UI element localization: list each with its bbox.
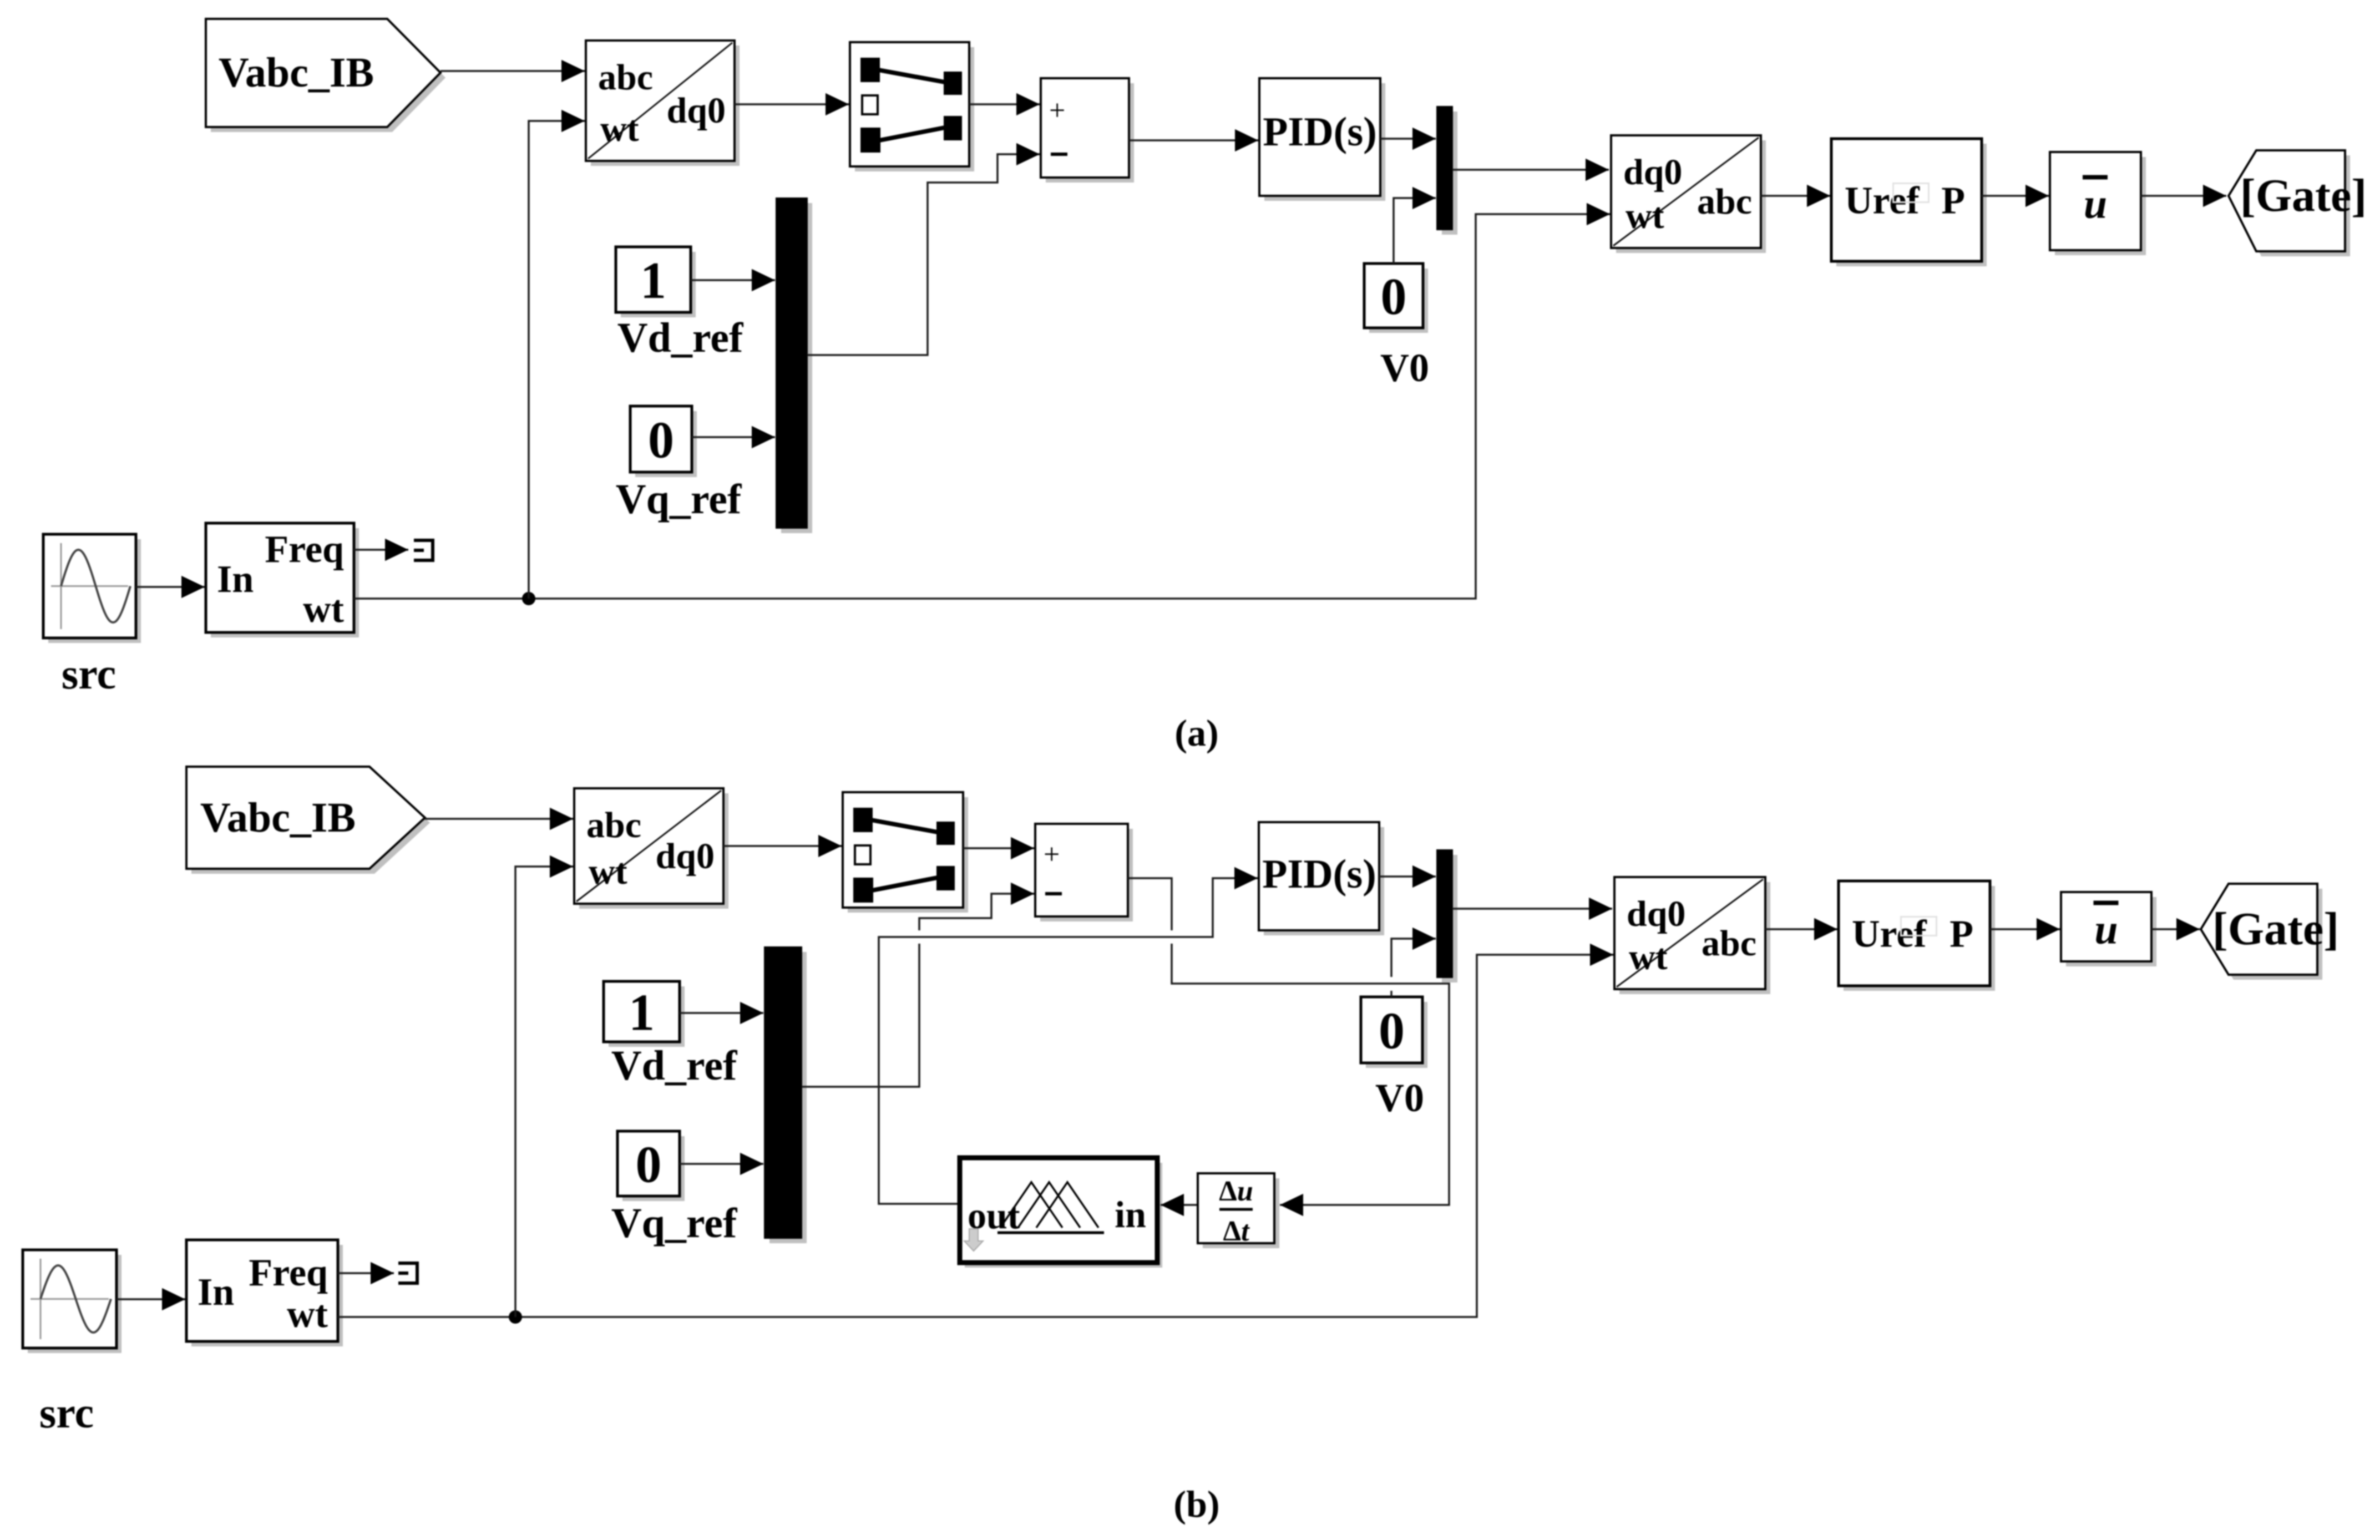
block dq0 to abc transform U2 (a) (1611, 135, 1766, 253)
svg-text:[Gate]: [Gate] (2212, 903, 2340, 955)
terminator (b) (398, 1262, 417, 1285)
svg-text:In: In (217, 558, 254, 601)
svg-text:Vd_ref: Vd_ref (611, 1042, 738, 1089)
PWM generator block Uref P (a) (1831, 139, 1987, 266)
wire PID to mux (b) (1379, 875, 1436, 878)
svg-text:PID(s): PID(s) (1262, 852, 1376, 897)
terminator (a) (414, 539, 433, 562)
mux M1 (b) (769, 952, 807, 1243)
svg-text:0: 0 (1379, 1002, 1405, 1060)
wire selector to sum plus (a) (969, 103, 1040, 105)
svg-text:u: u (2094, 906, 2118, 953)
sine source src (b) (23, 1250, 121, 1353)
wire Vabc_IB to abc-dq0 (a) (440, 70, 585, 72)
wire sum to PID (a) (1129, 139, 1258, 141)
sum block (a) (1041, 78, 1134, 183)
constant Vd_ref =1 (a) (616, 247, 696, 317)
svg-text:wt: wt (303, 588, 344, 631)
block dq0 to abc transform U2 (b) (1614, 877, 1770, 994)
sine source src (a) (43, 534, 141, 643)
wire mux to dq0-abc (a) (1452, 169, 1609, 171)
svg-text:[Gate]: [Gate] (2240, 170, 2367, 221)
svg-text:wt: wt (600, 109, 639, 149)
wire u-bar to Gate tag (a) (2141, 195, 2226, 197)
wire dq0-abc to Uref (b) (1765, 928, 1837, 930)
wire V0 to mux (b) (1390, 991, 1392, 997)
wire mux to dq0-abc (b) (1452, 908, 1612, 910)
junction wt (a) (522, 592, 535, 605)
fuzzy logic controller block (b) (960, 1158, 1162, 1268)
svg-text:+: + (1044, 839, 1060, 870)
svg-text:Vabc_IB: Vabc_IB (200, 794, 356, 841)
wire du-dt to fuzzy (b) (1161, 1204, 1198, 1206)
arrow wt into dq0-abc (a) (1587, 213, 1610, 215)
svg-text:1: 1 (629, 984, 655, 1042)
svg-text:wt: wt (1629, 937, 1668, 977)
wire Vd_ref to mux (b) (680, 1012, 763, 1014)
wire V0 to mux (a) (1394, 198, 1415, 264)
svg-text:Vd_ref: Vd_ref (617, 315, 744, 361)
svg-text:dq0: dq0 (656, 836, 715, 877)
svg-text:dq0: dq0 (1627, 894, 1685, 934)
goto tag Gate (a) (2234, 155, 2350, 256)
block abc to dq0 transform U1 (a) (586, 40, 740, 166)
sum block (b) (1035, 824, 1133, 921)
svg-text:wt: wt (287, 1293, 328, 1336)
svg-text:Freq: Freq (249, 1252, 328, 1294)
svg-text:PID(s): PID(s) (1263, 109, 1377, 155)
svg-text:Δt: Δt (1223, 1215, 1250, 1247)
PWM generator block Uref P (b) (1839, 881, 1995, 991)
wire fuzzy out to PID (b) (879, 878, 1235, 1204)
svg-text:1: 1 (640, 252, 666, 310)
wire wt branch up (a) (529, 121, 561, 599)
wire mux M1 to sum minus (b) (802, 944, 919, 1087)
svg-text:P: P (1949, 913, 1973, 956)
wire sum out to du-dt (b) (1128, 878, 1172, 930)
mux M2 (a) (1442, 112, 1457, 235)
wire wt branch up (b) (515, 867, 550, 1317)
constant Vd_ref =1 (b) (604, 981, 685, 1047)
svg-text:0: 0 (636, 1136, 662, 1194)
wire u-bar to Gate tag (b) (2151, 928, 2200, 930)
svg-text:Uref: Uref (1845, 180, 1920, 222)
selector block (a) (850, 42, 974, 171)
wire mux M1 to sum minus (a) (807, 154, 1015, 355)
mean block u-bar (b) (2061, 892, 2156, 966)
arrow wt into dq0-abc (b) (1590, 954, 1613, 956)
svg-text:Vabc_IB: Vabc_IB (219, 49, 374, 96)
mux M1 (a) (781, 203, 812, 533)
wire Freq to terminator (a) (354, 549, 408, 551)
svg-text:src: src (62, 650, 116, 698)
derivative block du-dt (b) (1198, 1173, 1279, 1248)
svg-text:src: src (39, 1389, 94, 1437)
svg-text:0: 0 (648, 412, 674, 469)
PID controller block (b) (1264, 827, 1384, 935)
svg-text:Vq_ref: Vq_ref (611, 1200, 738, 1247)
wire abc-dq0 to selector (b) (723, 845, 842, 847)
svg-text:abc: abc (1702, 923, 1756, 964)
frequency block In Freq wt (a) (206, 523, 359, 637)
wire dq0-abc to Uref (a) (1761, 195, 1830, 197)
wire PID to mux (a) (1380, 138, 1436, 140)
svg-text:in: in (1115, 1193, 1146, 1235)
mean block u-bar (a) (2050, 152, 2146, 255)
goto tag Gate (b) (2206, 889, 2322, 980)
wire Freq to terminator (b) (338, 1272, 394, 1274)
junction wt (b) (509, 1310, 522, 1324)
svg-text:dq0: dq0 (667, 90, 726, 131)
input tag Vabc_IB (a) (211, 24, 445, 132)
svg-text:(a): (a) (1174, 712, 1218, 754)
frequency block In Freq wt (b) (186, 1240, 343, 1346)
svg-text:Uref: Uref (1852, 913, 1927, 956)
wire Vabc_IB to abc-dq0 (b) (425, 818, 573, 820)
constant Vq_ref =0 (a) (630, 406, 697, 477)
svg-text:dq0: dq0 (1623, 152, 1682, 192)
wire Vd_ref to mux (a) (691, 279, 775, 281)
svg-text:(b): (b) (1173, 1483, 1219, 1525)
wire wt long (a) (354, 214, 1607, 599)
wire Vq_ref to mux (b) (680, 1163, 763, 1165)
svg-text:abc: abc (1697, 181, 1752, 222)
wire Vq_ref to mux (a) (692, 436, 775, 438)
selector block (b) (843, 792, 968, 913)
svg-text:0: 0 (1381, 268, 1407, 326)
svg-text:V0: V0 (1375, 1076, 1424, 1120)
wire src to In (a) (136, 586, 205, 588)
wire abc-dq0 to selector (a) (735, 103, 849, 105)
svg-text:In: In (198, 1271, 234, 1314)
block abc to dq0 transform U1 (b) (574, 788, 728, 909)
svg-text:Freq: Freq (265, 528, 344, 571)
constant V0 (a) (1364, 264, 1428, 333)
svg-text:Δu: Δu (1219, 1176, 1253, 1207)
constant Vq_ref =0 (b) (617, 1131, 685, 1201)
svg-text:V0: V0 (1380, 346, 1429, 390)
constant V0 (b) (1361, 997, 1427, 1068)
svg-text:wt: wt (589, 852, 627, 892)
svg-text:+: + (1049, 95, 1065, 126)
wire wt long (b) (338, 955, 1610, 1317)
PID controller block (a) (1264, 83, 1385, 201)
svg-text:Vq_ref: Vq_ref (616, 476, 742, 523)
wire src to In (b) (117, 1298, 185, 1300)
svg-text:P: P (1941, 180, 1965, 222)
svg-text:wt: wt (1626, 196, 1664, 236)
wire Uref to u-bar (a) (1982, 195, 2049, 197)
mux M2 (b) (1442, 855, 1457, 982)
svg-text:abc: abc (586, 805, 641, 845)
svg-text:abc: abc (598, 57, 653, 98)
wire selector to sum plus (b) (963, 847, 1034, 849)
svg-text:u: u (2084, 181, 2107, 227)
wire Uref to u-bar (b) (1990, 928, 2060, 930)
input tag Vabc_IB (b) (191, 772, 430, 874)
